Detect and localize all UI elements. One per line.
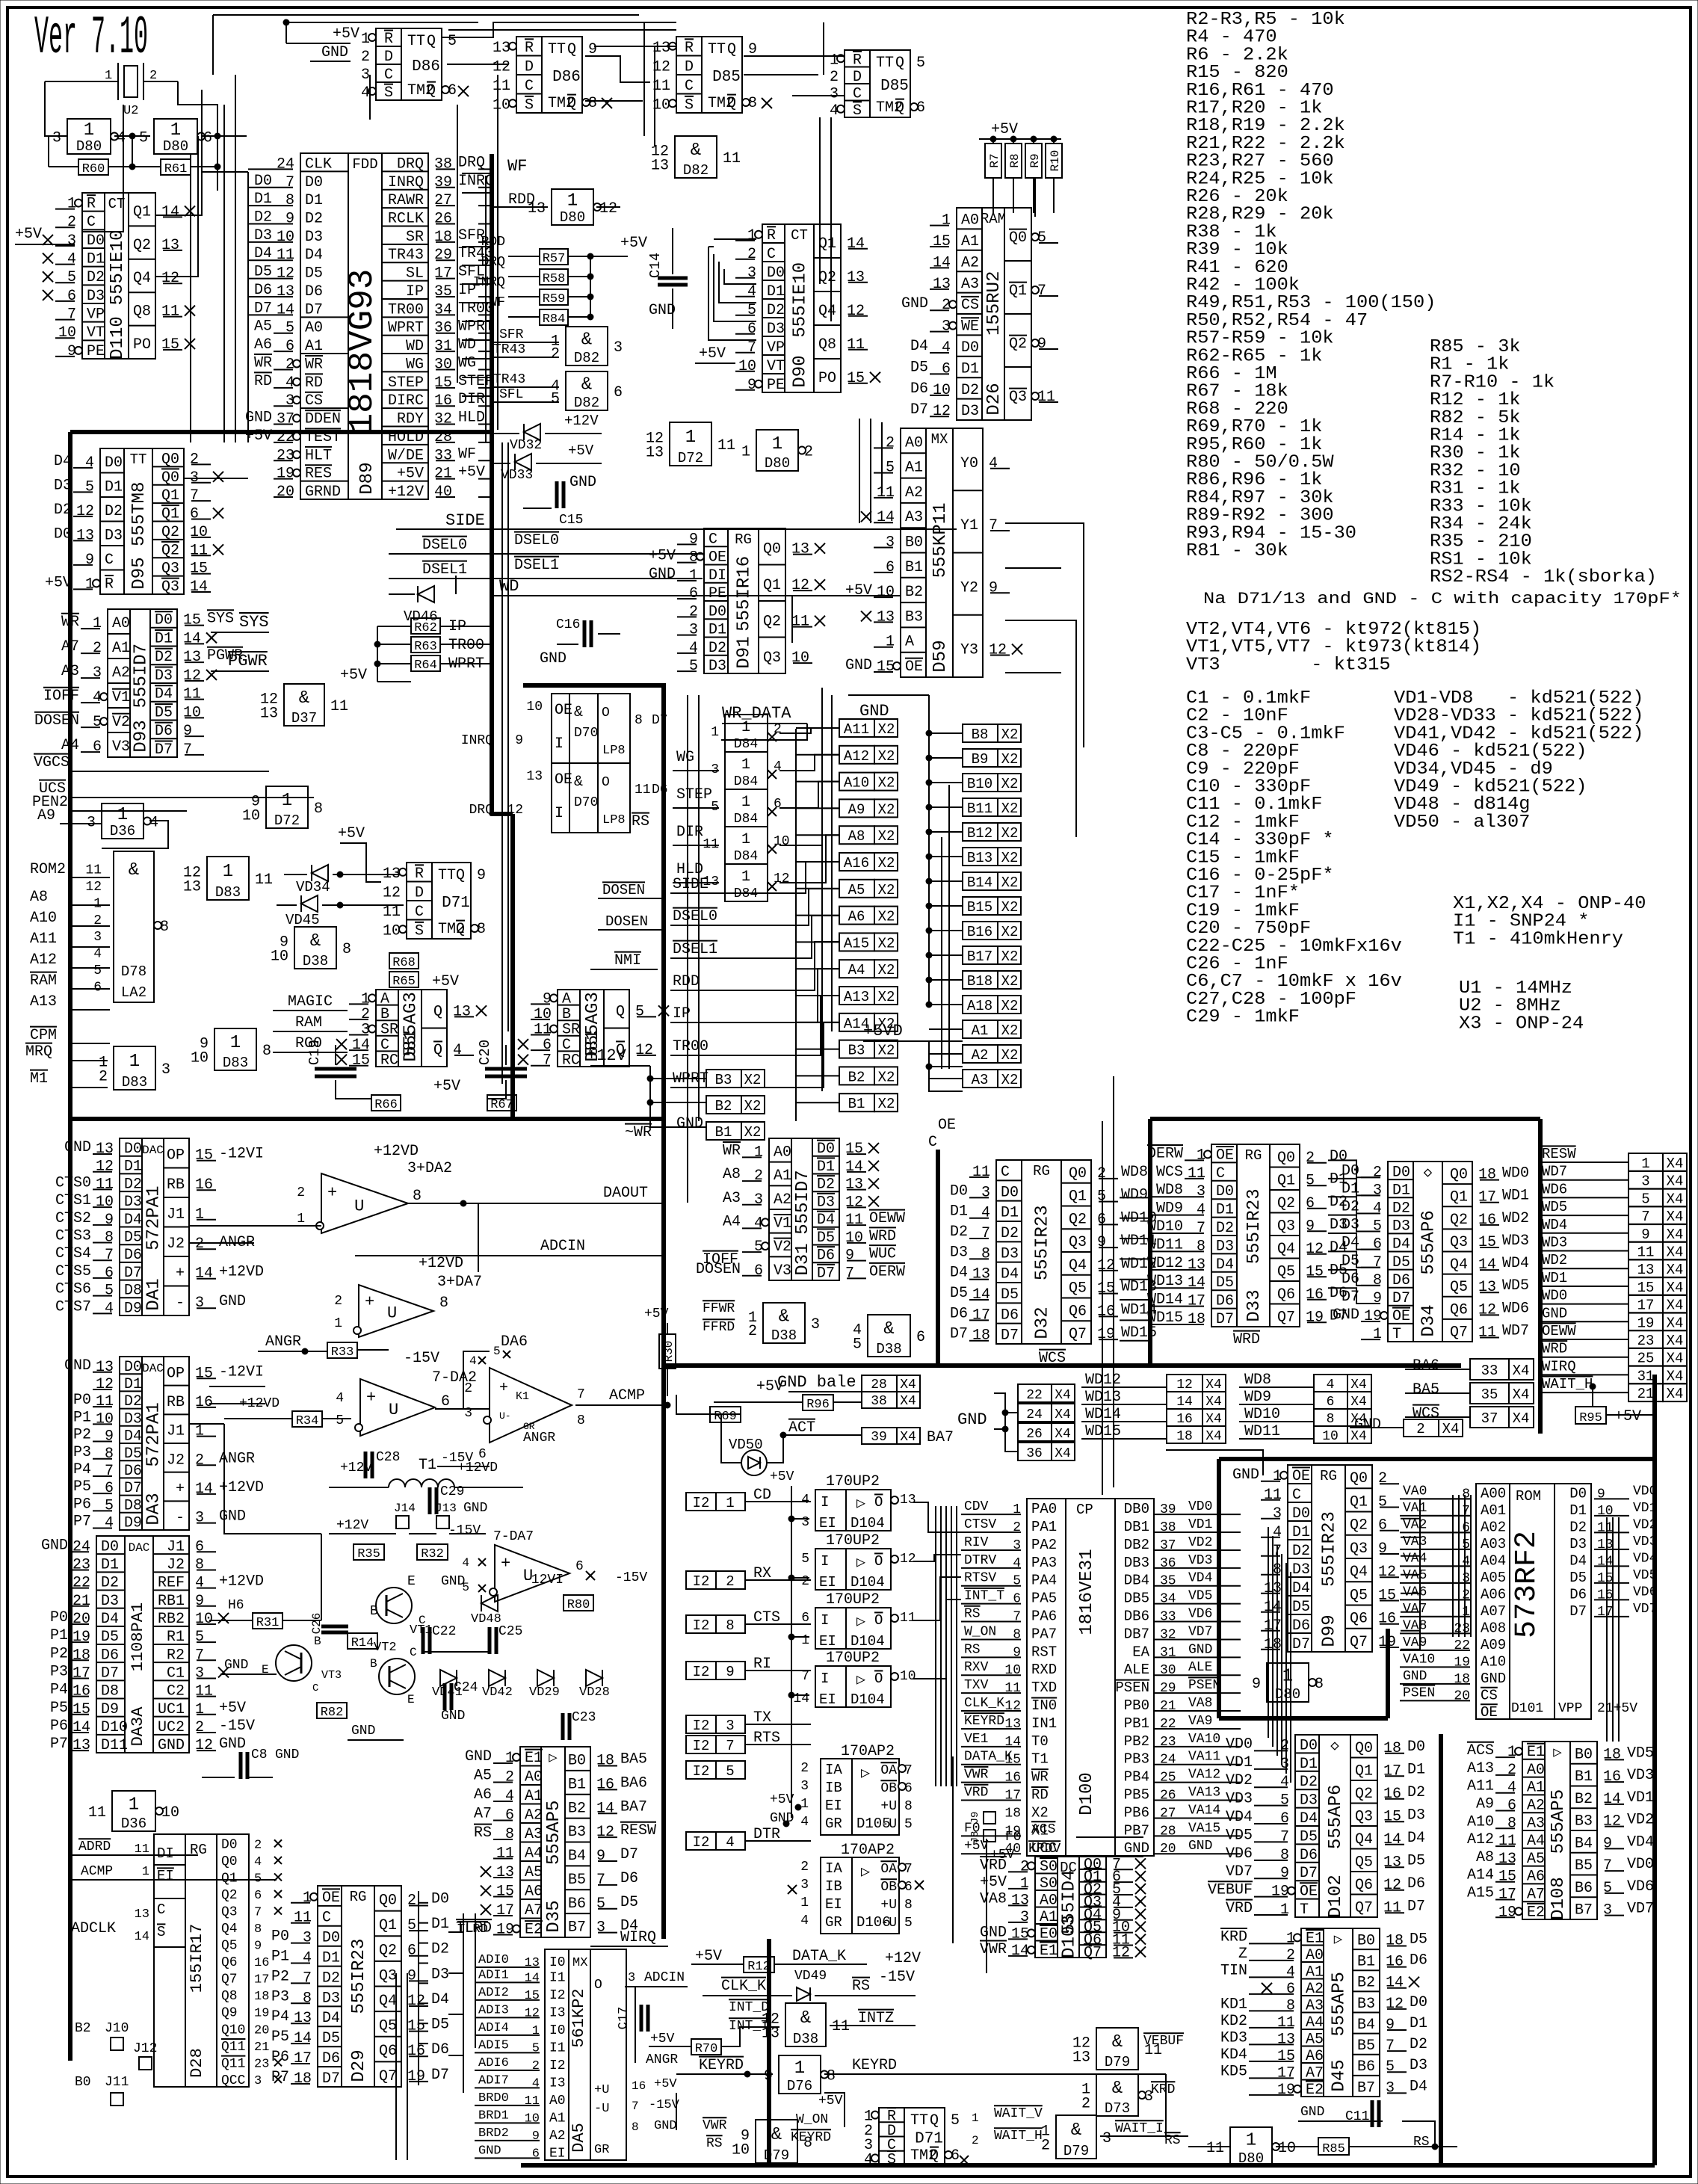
svg-text:8: 8	[803, 2135, 812, 2152]
svg-text:Q0: Q0	[161, 451, 179, 468]
svg-text:7: 7	[105, 1247, 114, 1264]
svg-text:D0: D0	[101, 1538, 119, 1555]
svg-text:Q0: Q0	[1277, 1150, 1295, 1167]
svg-text:2: 2	[886, 434, 895, 451]
svg-text:A4: A4	[525, 1845, 543, 1863]
svg-text:VD0: VD0	[1633, 1484, 1657, 1499]
svg-text:D1: D1	[105, 478, 123, 496]
svg-text:D3: D3	[101, 1593, 119, 1610]
svg-text:D6: D6	[1569, 1586, 1587, 1602]
svg-text:X4: X4	[1667, 1315, 1684, 1331]
svg-text:D2: D2	[1410, 2036, 1427, 2053]
svg-text:&: &	[779, 1307, 789, 1327]
svg-text:14: 14	[352, 1037, 370, 1054]
small squares J9 J8	[984, 1812, 995, 1824]
svg-text:A7: A7	[525, 1902, 543, 1919]
svg-text:A1: A1	[961, 233, 979, 250]
svg-text:VD34: VD34	[296, 879, 330, 895]
svg-text:5: 5	[904, 1817, 913, 1832]
svg-text:9: 9	[183, 723, 192, 740]
svg-text:11: 11	[534, 1022, 552, 1039]
svg-text:GND: GND	[219, 1508, 246, 1526]
svg-text:+5V: +5V	[699, 345, 726, 363]
svg-text:2: 2	[800, 1761, 809, 1776]
svg-text:Q3: Q3	[763, 650, 781, 667]
svg-text:17: 17	[1637, 1298, 1655, 1314]
D89 column row lines	[382, 170, 428, 172]
svg-text:-15V: -15V	[649, 2098, 680, 2112]
svg-text:D1: D1	[950, 1203, 968, 1221]
svg-text:4: 4	[105, 1515, 114, 1532]
svg-text:X4: X4	[1055, 1407, 1071, 1422]
svg-text:CTS5: CTS5	[55, 1263, 91, 1280]
svg-text:573RF2: 573RF2	[1510, 1531, 1544, 1638]
svg-text:D101: D101	[1511, 1701, 1543, 1716]
diode VD29	[537, 1670, 554, 1686]
svg-text:11: 11	[96, 1176, 114, 1193]
svg-text:X4: X4	[1055, 1446, 1071, 1461]
svg-text:D6: D6	[1392, 1272, 1410, 1289]
svg-text:CTS1: CTS1	[55, 1192, 91, 1209]
svg-text:A7: A7	[1527, 1886, 1545, 1903]
svg-text:X4: X4	[1055, 1388, 1071, 1403]
svg-text:6: 6	[254, 1889, 262, 1903]
svg-text:Q5: Q5	[221, 1939, 238, 1954]
svg-text:+U: +U	[880, 1898, 897, 1913]
svg-text:WR_DATA: WR_DATA	[722, 704, 791, 723]
svg-text:Q3: Q3	[1277, 1218, 1295, 1235]
register D99 555IR23	[1288, 1465, 1372, 1652]
svg-text:12: 12	[933, 403, 951, 420]
svg-text:OEWW: OEWW	[1542, 1323, 1576, 1339]
svg-text:WD4: WD4	[1502, 1255, 1529, 1272]
svg-text:8: 8	[1286, 1997, 1295, 2014]
svg-text:QCC: QCC	[221, 2073, 246, 2088]
svg-text:22: 22	[72, 1575, 90, 1592]
svg-text:15: 15	[1383, 1808, 1401, 1825]
svg-text:VA15: VA15	[1188, 1821, 1220, 1836]
svg-text:8: 8	[1280, 1847, 1289, 1864]
svg-text:PSEN: PSEN	[1188, 1678, 1220, 1693]
svg-text:WD7: WD7	[1502, 1322, 1529, 1339]
svg-text:ADI4: ADI4	[478, 2021, 509, 2035]
svg-text:1: 1	[1282, 1666, 1293, 1686]
svg-text:+5V: +5V	[15, 226, 42, 243]
svg-text:X4: X4	[1667, 1156, 1684, 1172]
svg-text:X4: X4	[1667, 1244, 1684, 1261]
svg-text:BA7: BA7	[927, 1429, 954, 1446]
svg-text:14: 14	[1011, 1943, 1029, 1960]
svg-text:7: 7	[285, 174, 294, 191]
svg-text:4: 4	[747, 283, 756, 300]
svg-text:5: 5	[689, 658, 698, 675]
diode VD48	[481, 1595, 498, 1611]
wire WR_DATA verticals	[687, 695, 688, 1203]
svg-text:18: 18	[72, 1647, 90, 1664]
svg-text:R85: R85	[1322, 2142, 1345, 2156]
svg-text:D84: D84	[734, 812, 758, 827]
svg-text:9: 9	[596, 1848, 605, 1865]
svg-text:D4: D4	[817, 1212, 835, 1229]
svg-text:R69: R69	[714, 1410, 737, 1424]
svg-text:PB1: PB1	[1124, 1715, 1149, 1732]
svg-text:1: 1	[532, 2024, 540, 2038]
svg-text:D72: D72	[678, 450, 703, 466]
svg-text:13: 13	[1072, 2049, 1090, 2066]
svg-text:+5V: +5V	[845, 582, 872, 599]
svg-text:14: 14	[877, 509, 895, 526]
svg-text:VD5: VD5	[1633, 1568, 1657, 1583]
svg-text:O: O	[874, 1553, 883, 1570]
svg-text:D3: D3	[767, 321, 785, 338]
svg-text:+5V: +5V	[568, 442, 594, 459]
svg-text:19: 19	[254, 2007, 269, 2021]
resistor R66	[371, 1095, 401, 1111]
svg-text:I0: I0	[549, 1955, 566, 1970]
svg-text:EI: EI	[157, 1868, 174, 1884]
svg-text:R8: R8	[1008, 153, 1022, 167]
svg-text:2: 2	[1286, 1947, 1295, 1964]
svg-text:D4: D4	[1300, 1810, 1318, 1827]
svg-text:4: 4	[105, 1300, 114, 1317]
svg-text:VD6: VD6	[1627, 1878, 1654, 1895]
svg-text:555ID7: 555ID7	[132, 644, 152, 708]
svg-text:5: 5	[1378, 1493, 1387, 1511]
svg-text:D2: D2	[817, 1176, 835, 1194]
svg-text:J2: J2	[167, 1452, 185, 1469]
svg-text:555ID7: 555ID7	[793, 1170, 813, 1234]
svg-text:GND: GND	[321, 44, 348, 61]
svg-text:8: 8	[904, 1799, 913, 1814]
svg-text:12: 12	[407, 1993, 425, 2010]
svg-text:R: R	[767, 227, 776, 244]
svg-text:6: 6	[1507, 1797, 1516, 1814]
svg-text:13: 13	[1498, 1851, 1516, 1868]
svg-text:D45: D45	[1330, 2059, 1350, 2091]
svg-text:VWR: VWR	[964, 1768, 989, 1783]
svg-text:29: 29	[434, 247, 452, 264]
LED VD50	[741, 1450, 767, 1475]
svg-text:CT: CT	[791, 227, 808, 244]
svg-text:6: 6	[689, 585, 698, 602]
svg-text:D110: D110	[108, 316, 128, 360]
svg-text:E2: E2	[1527, 1904, 1545, 1921]
svg-text:17: 17	[434, 265, 452, 283]
svg-text:D85: D85	[880, 78, 909, 95]
svg-text:15: 15	[525, 1989, 540, 2003]
svg-text:11: 11	[845, 1212, 863, 1229]
svg-text:572PA1: 572PA1	[144, 1185, 164, 1250]
svg-text:X4: X4	[1513, 1386, 1530, 1403]
svg-text:1: 1	[195, 1206, 204, 1224]
svg-text:X4: X4	[1055, 1427, 1071, 1442]
svg-text:&: &	[310, 931, 321, 951]
svg-text:I: I	[821, 1612, 829, 1629]
svg-text:D0: D0	[322, 1930, 340, 1947]
svg-text:INRQ: INRQ	[388, 174, 424, 191]
oneshot D81 b 555AG3	[558, 990, 629, 1067]
svg-text:B1: B1	[715, 1124, 732, 1141]
svg-text:D: D	[384, 49, 393, 66]
wire verticals D85 cluster	[643, 22, 645, 136]
svg-text:8: 8	[413, 1188, 422, 1205]
svg-text:DI: DI	[157, 1845, 174, 1862]
svg-text:5: 5	[1373, 1218, 1382, 1236]
svg-text:7: 7	[596, 1872, 605, 1889]
svg-text:8: 8	[726, 1617, 734, 1634]
svg-text:R: R	[87, 196, 96, 213]
svg-text:D5: D5	[1292, 1599, 1310, 1616]
svg-text:X2: X2	[1001, 948, 1019, 965]
svg-text:11: 11	[791, 614, 809, 631]
svg-text:P2: P2	[73, 1427, 91, 1444]
svg-text:Q5: Q5	[1277, 1263, 1295, 1280]
svg-text:R34: R34	[296, 1414, 319, 1428]
svg-text:R35: R35	[357, 1547, 380, 1561]
svg-text:+5V: +5V	[397, 466, 424, 483]
svg-text:+: +	[176, 1265, 185, 1283]
svg-text:A3: A3	[61, 663, 79, 680]
svg-text:&: &	[129, 860, 139, 880]
svg-text:Q0: Q0	[161, 469, 179, 487]
svg-text:ADI0: ADI0	[478, 1953, 509, 1967]
svg-text:D2: D2	[322, 1969, 340, 1987]
svg-text:7: 7	[989, 517, 998, 534]
svg-text:A4: A4	[723, 1213, 741, 1230]
svg-text:D4: D4	[101, 1611, 119, 1628]
svg-text:+5V: +5V	[245, 428, 272, 445]
svg-text:B9: B9	[972, 751, 989, 768]
svg-text:PA0: PA0	[1031, 1501, 1057, 1517]
svg-text:21: 21	[434, 466, 452, 483]
svg-text:D7: D7	[101, 1665, 119, 1682]
svg-text:VA8: VA8	[1188, 1696, 1212, 1711]
svg-text:5: 5	[1280, 1792, 1289, 1810]
svg-text:D5: D5	[1216, 1274, 1234, 1292]
svg-text:Q6: Q6	[221, 1955, 238, 1970]
svg-text:WE: WE	[961, 318, 979, 336]
svg-text:X2: X2	[1001, 850, 1019, 866]
svg-text:GND: GND	[540, 650, 566, 667]
svg-text:C: C	[312, 1682, 318, 1694]
svg-text:Q4: Q4	[1450, 1256, 1468, 1274]
svg-text:D3: D3	[950, 1244, 968, 1261]
svg-text:VA11: VA11	[1188, 1750, 1220, 1765]
svg-text:5: 5	[801, 1552, 809, 1567]
svg-text:STEP: STEP	[388, 374, 424, 392]
svg-text:1: 1	[567, 191, 578, 212]
svg-text:PSEN: PSEN	[1403, 1685, 1435, 1700]
svg-text:-12VI: -12VI	[219, 1146, 264, 1163]
svg-text:+12V: +12V	[885, 1950, 921, 1967]
svg-text:S: S	[887, 2151, 896, 2168]
svg-text:R59: R59	[543, 292, 566, 306]
svg-text:A3: A3	[1527, 1815, 1545, 1832]
svg-text:4: 4	[453, 1042, 462, 1059]
svg-text:D2: D2	[101, 1575, 119, 1592]
svg-text:9: 9	[1603, 1835, 1612, 1852]
svg-text:4: 4	[303, 1949, 312, 1966]
svg-text:8: 8	[303, 1990, 312, 2007]
svg-text:B14: B14	[967, 874, 992, 891]
wire WR_DATA to D84	[721, 724, 807, 740]
svg-text:I1: I1	[549, 1970, 566, 1985]
svg-text:CLK: CLK	[305, 155, 332, 173]
svg-text:ADCIN: ADCIN	[540, 1238, 585, 1255]
svg-text:9: 9	[195, 1593, 204, 1610]
svg-text:SYS: SYS	[239, 613, 269, 632]
wires D84 to X2	[779, 728, 839, 733]
svg-text:J8: J8	[969, 1831, 981, 1844]
svg-text:MRQ: MRQ	[25, 1043, 52, 1061]
svg-text:+: +	[327, 1184, 337, 1203]
svg-text:VD6: VD6	[1226, 1845, 1253, 1863]
svg-text:B0: B0	[905, 534, 923, 552]
svg-text:Q2: Q2	[1069, 1211, 1087, 1228]
svg-text:27: 27	[434, 192, 452, 209]
wire D91 outputs down	[791, 596, 793, 643]
svg-text:A11: A11	[844, 721, 869, 738]
svg-text:WD2: WD2	[1542, 1252, 1567, 1268]
svg-text:D86: D86	[412, 58, 440, 75]
svg-text:X2: X2	[1001, 998, 1019, 1014]
svg-text:VWR: VWR	[980, 1941, 1007, 1958]
svg-text:X4: X4	[1667, 1227, 1684, 1243]
svg-text:+: +	[176, 1481, 185, 1498]
svg-text:A4: A4	[1527, 1833, 1545, 1850]
svg-text:TR00: TR00	[388, 301, 424, 318]
svg-text:+12V: +12V	[336, 1518, 368, 1533]
svg-text:17: 17	[1383, 1762, 1401, 1780]
svg-text:D3: D3	[87, 288, 105, 305]
svg-text:GND: GND	[1188, 1839, 1212, 1854]
wires D33 to D34	[1328, 1160, 1380, 1177]
svg-text:P2: P2	[50, 1645, 68, 1662]
svg-text:5: 5	[1641, 1191, 1649, 1207]
wire bus D89 data left	[247, 172, 249, 442]
svg-text:PA6: PA6	[1031, 1608, 1057, 1625]
svg-text:P1: P1	[50, 1627, 68, 1644]
svg-text:6: 6	[1327, 1395, 1335, 1410]
svg-text:C22: C22	[432, 1624, 456, 1639]
svg-text:E1: E1	[1527, 1744, 1545, 1761]
svg-text:2: 2	[67, 214, 76, 231]
svg-text:D0: D0	[961, 339, 979, 357]
svg-text:2: 2	[972, 2134, 979, 2147]
svg-text:WD15: WD15	[1085, 1423, 1121, 1440]
svg-text:RB1: RB1	[158, 1593, 185, 1610]
svg-text:12: 12	[1383, 1877, 1401, 1894]
svg-text:I2: I2	[693, 1718, 710, 1734]
svg-text:M1: M1	[30, 1070, 48, 1088]
svg-text:D6: D6	[101, 1647, 119, 1664]
svg-text:VD7: VD7	[1627, 1901, 1654, 1918]
svg-text:10: 10	[190, 524, 208, 541]
svg-text:D6: D6	[1001, 1307, 1019, 1324]
wire D86b to D85a	[585, 56, 650, 82]
svg-text:1818VG93: 1818VG93	[343, 269, 382, 434]
B3 B2 B1 X2 boxes	[706, 1070, 741, 1088]
resistor R61	[161, 159, 191, 175]
svg-text:A0: A0	[905, 434, 923, 451]
svg-text:WAIT_I: WAIT_I	[1115, 2121, 1164, 2136]
svg-text:O: O	[874, 1494, 883, 1511]
svg-text:Q4: Q4	[818, 303, 836, 320]
svg-text:4: 4	[800, 1815, 809, 1830]
svg-text:11: 11	[832, 2018, 850, 2035]
svg-text:A2: A2	[961, 254, 979, 271]
svg-text:VA1: VA1	[1403, 1501, 1427, 1516]
gate D79 a	[1096, 2028, 1138, 2070]
svg-text:D8: D8	[124, 1283, 142, 1300]
svg-text:OP: OP	[167, 1365, 185, 1382]
svg-text:Ver 7.10: Ver 7.10	[34, 7, 148, 69]
svg-text:11: 11	[183, 686, 201, 703]
svg-text:2: 2	[1041, 2138, 1050, 2155]
svg-text:6: 6	[190, 506, 199, 523]
svg-text:D11: D11	[101, 1737, 128, 1754]
svg-text:B8: B8	[972, 727, 989, 743]
svg-text:WR: WR	[723, 1142, 741, 1159]
ram D26 155RU2	[957, 208, 1031, 420]
resistor R80	[564, 1595, 593, 1611]
diode VD42	[489, 1670, 505, 1686]
svg-text:1: 1	[942, 212, 951, 229]
svg-text:OP: OP	[167, 1147, 185, 1165]
svg-text:X2: X2	[1031, 1804, 1049, 1821]
svg-text:Q2: Q2	[1450, 1212, 1468, 1229]
svg-text:11: 11	[1206, 2140, 1224, 2157]
svg-text:A1: A1	[525, 1788, 543, 1805]
svg-text:11: 11	[277, 247, 294, 264]
svg-text:10: 10	[96, 1194, 114, 1211]
svg-text:38: 38	[871, 1394, 887, 1409]
svg-text:HLT: HLT	[305, 447, 332, 464]
svg-text:8: 8	[195, 1556, 204, 1573]
svg-text:X4: X4	[1350, 1378, 1367, 1392]
svg-text:A11: A11	[30, 931, 57, 948]
svg-text:6: 6	[916, 1329, 925, 1346]
svg-text:Q1: Q1	[221, 1871, 238, 1886]
svg-text:PB4: PB4	[1124, 1769, 1149, 1786]
svg-text:Q0: Q0	[379, 1892, 397, 1909]
wire crystal loop	[45, 81, 67, 136]
svg-text:D7: D7	[305, 301, 323, 318]
svg-text:3: 3	[195, 1510, 204, 1527]
svg-text:X2: X2	[1001, 825, 1019, 842]
svg-text:9: 9	[989, 579, 998, 596]
resistor R31	[253, 1613, 283, 1629]
capacitor C8	[239, 1752, 243, 1779]
svg-text:OE: OE	[322, 1890, 340, 1907]
svg-text:D70: D70	[574, 726, 598, 741]
wire DA5 out	[635, 1987, 636, 2063]
svg-text:CS: CS	[1481, 1687, 1498, 1703]
svg-text:155IR17: 155IR17	[188, 1924, 206, 1993]
svg-text:A13: A13	[30, 993, 57, 1011]
svg-text:Q4: Q4	[221, 1922, 238, 1937]
svg-text:V2: V2	[774, 1238, 791, 1256]
svg-text:D5: D5	[322, 2030, 340, 2047]
svg-text:T0: T0	[1031, 1733, 1049, 1750]
gate D80 rdd	[552, 189, 593, 225]
svg-text:D7: D7	[1300, 1865, 1318, 1882]
svg-text:GND: GND	[465, 1748, 492, 1765]
svg-text:+12VD: +12VD	[419, 1255, 463, 1272]
svg-text:16: 16	[1386, 1954, 1404, 1971]
svg-text:D3: D3	[1292, 1561, 1310, 1579]
svg-text:&: &	[883, 1319, 894, 1339]
